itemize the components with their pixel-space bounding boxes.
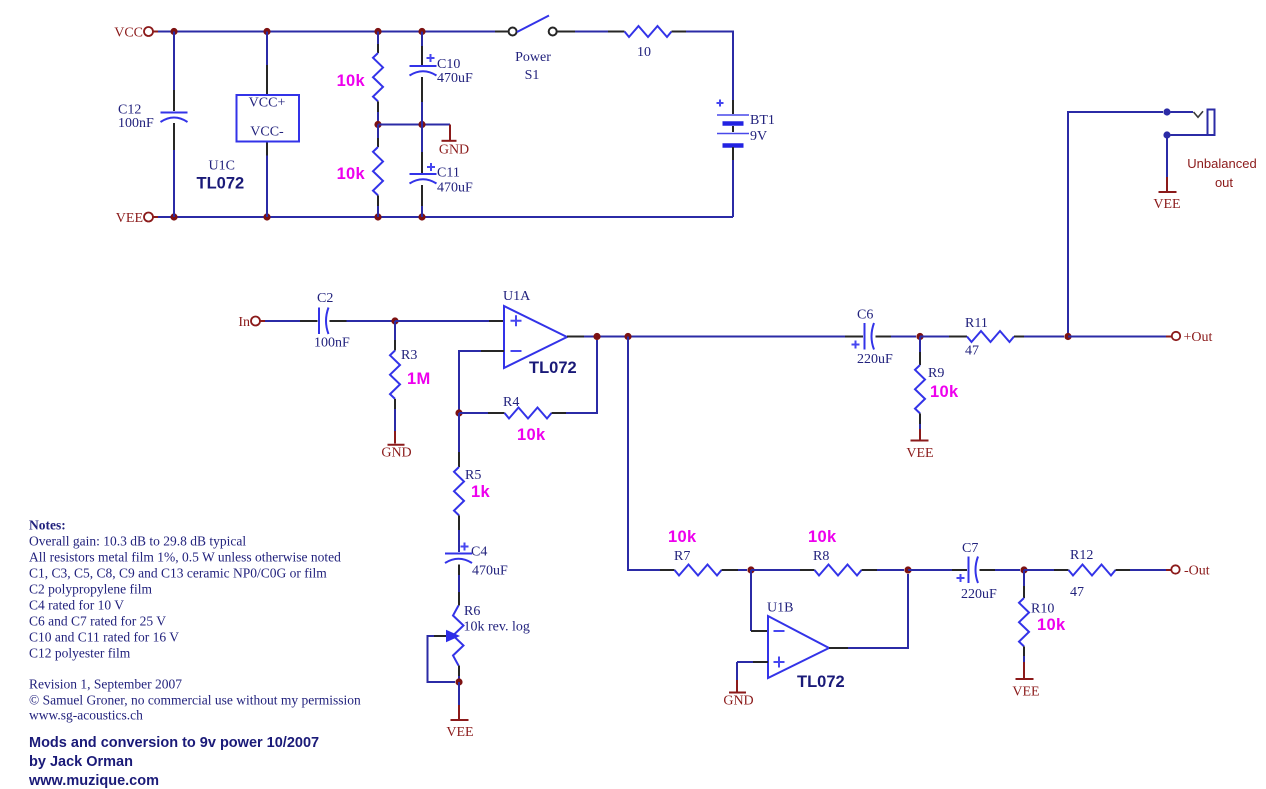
wire U1B- pin [751,630,768,632]
svg-text:470uF: 470uF [437,71,473,86]
svg-text:GND: GND [723,694,753,709]
potentiometer R6 [428,592,530,682]
wire +out column up [1068,112,1163,337]
node VEE/U1C [263,213,270,220]
svg-text:47: 47 [965,344,979,359]
port VCC [114,26,158,41]
svg-text:VEE: VEE [1153,197,1180,212]
node R8/C7/U1B out [904,566,911,573]
svg-text:out: out [1215,175,1233,190]
wire R to battery [672,32,734,115]
wire switch to R [575,31,625,33]
wire branch down to lower row [628,337,660,571]
svg-text:10k: 10k [517,426,546,444]
svg-text:R7: R7 [674,549,690,564]
capacitor C6 [845,308,916,368]
wire U1B+ pin [737,662,768,680]
svg-text:BT1: BT1 [750,113,775,128]
svg-text:C7: C7 [962,541,978,556]
label Unbalanced out [1187,156,1256,190]
svg-text:10k: 10k [337,72,366,90]
svg-text:VEE: VEE [446,725,473,740]
svg-text:TL072: TL072 [529,359,577,377]
node feedback/R4/R5 [455,409,462,416]
svg-text:Power: Power [515,50,551,65]
node C7/R10/R12 [1020,566,1027,573]
svg-text:TL072: TL072 [797,673,845,691]
node R6 bottom [455,678,462,685]
resistor R12 [1024,548,1166,600]
svg-text:220uF: 220uF [857,352,893,367]
svg-text:9V: 9V [750,129,767,144]
svg-text:R8: R8 [813,549,829,564]
wire feedback [459,351,481,413]
svg-text:+Out: +Out [1184,330,1213,345]
jack J1 tip contact [1194,111,1204,117]
svg-text:10k: 10k [930,383,959,401]
node C6/R9/R11 [916,333,923,340]
capacitor C11 [410,125,474,218]
capacitor C7 [908,541,1020,602]
svg-text:10k: 10k [337,165,366,183]
power VEE (R9) [906,429,933,461]
op-amp U1C power box [197,95,300,193]
svg-text:Unbalanced: Unbalanced [1187,156,1256,171]
svg-text:10k: 10k [668,528,697,546]
power VEE (R10) [1012,662,1039,700]
svg-text:In: In [238,315,250,330]
wire R6 to VEE [458,682,460,705]
wire to +Out [1068,336,1166,338]
resistor 10k (lower divider) [337,125,383,218]
svg-text:VCC+: VCC+ [249,96,286,111]
svg-text:C10: C10 [437,57,460,72]
node output/feedback [593,333,600,340]
wire sleeve to VEE [1166,138,1168,177]
wire divider mid to C10/C11 [378,124,450,126]
node VCC/C12 [170,28,177,35]
capacitor C2 [314,291,350,351]
svg-text:U1B: U1B [767,601,793,616]
op-amp U1B [767,601,845,692]
svg-text:470uF: 470uF [437,181,473,196]
wire U1A- pin [481,350,504,352]
svg-text:www.muzique.com: www.muzique.com [28,773,159,789]
svg-text:Notes:: Notes: [29,518,66,533]
jack J1 sleeve [1208,110,1215,136]
wire battery to VEE rail [732,147,734,217]
port In [238,315,265,330]
svg-text:100nF: 100nF [118,116,154,131]
title text [28,735,319,789]
notes text [29,518,361,723]
port -Out [1166,564,1210,579]
capacitor C12 [118,103,188,132]
svg-text:C2: C2 [317,291,333,306]
wire tip [1171,111,1194,113]
wire U1C branch [266,32,268,218]
node input [391,317,398,324]
wire node to U1A+ [395,320,504,322]
node C10/C11 mid [418,121,425,128]
resistor R9 [915,337,959,430]
svg-text:-Out: -Out [1184,564,1210,579]
resistor R11 [920,316,1064,359]
svg-text:10k: 10k [808,528,837,546]
svg-text:All resistors metal film 1%, 0: All resistors metal film 1%, 0.5 W unles… [29,550,341,565]
power VEE (jack) [1153,177,1180,212]
svg-text:C12 polyester film: C12 polyester film [29,646,131,661]
svg-text:R12: R12 [1070,548,1093,563]
svg-text:10k rev. log: 10k rev. log [464,620,530,635]
svg-text:U1C: U1C [209,159,235,174]
svg-text:C11: C11 [437,166,460,181]
svg-text:R4: R4 [503,395,519,410]
resistor 10k (upper divider) [337,32,383,125]
resistor R7 [660,528,747,576]
svg-text:1k: 1k [471,483,490,501]
svg-text:R5: R5 [465,468,481,483]
port VEE (left) [116,211,158,226]
svg-text:GND: GND [439,143,469,158]
wire C2 to node [330,320,396,322]
wire U1A output [567,336,845,338]
svg-text:R6: R6 [464,604,480,619]
svg-text:R11: R11 [965,316,988,331]
ground GND (supply mid) [439,125,469,158]
svg-text:TL072: TL072 [197,175,245,193]
resistor R8 [751,528,904,576]
port +Out [1166,330,1213,345]
node VEE/divider [374,213,381,220]
capacitor C10 [410,32,474,125]
svg-text:47: 47 [1070,585,1084,600]
node VEE/C11 [418,213,425,220]
node VCC/C10 [418,28,425,35]
svg-text:VEE: VEE [1012,685,1039,700]
capacitor C4 [445,543,508,593]
wire C12 branch [173,32,175,218]
wire U1B output [829,574,908,648]
switch S1 [495,16,575,84]
svg-text:10: 10 [637,45,651,60]
node VEE/C12 [170,213,177,220]
svg-text:R9: R9 [928,366,944,381]
svg-text:C6 and C7 rated for 25 V: C6 and C7 rated for 25 V [29,614,166,629]
resistor R5 [454,413,490,552]
node VCC/U1C [263,28,270,35]
svg-text:www.sg-acoustics.ch: www.sg-acoustics.ch [29,708,143,723]
node R11/+Out/jack [1064,333,1071,340]
svg-text:100nF: 100nF [314,336,350,351]
resistor R4 [459,340,597,444]
resistor R3 [390,321,431,431]
svg-text:470uF: 470uF [472,564,508,579]
svg-text:Revision 1, September 2007: Revision 1, September 2007 [29,677,182,692]
svg-text:© Samuel Groner, no commercial: © Samuel Groner, no commercial use witho… [29,693,361,708]
svg-text:Overall gain: 10.3 dB to 29.8: Overall gain: 10.3 dB to 29.8 dB typical [29,534,246,549]
svg-text:220uF: 220uF [961,587,997,602]
svg-text:Mods and conversion to 9v powe: Mods and conversion to 9v power 10/2007 [29,735,319,751]
wire VEE rail [158,216,733,218]
svg-text:C10 and C11 rated for 16 V: C10 and C11 rated for 16 V [29,630,179,645]
svg-text:C2 polypropylene film: C2 polypropylene film [29,582,152,597]
svg-text:by Jack Orman: by Jack Orman [29,754,133,770]
svg-text:VCC: VCC [114,26,143,41]
svg-text:S1: S1 [525,68,540,83]
svg-text:VEE: VEE [116,211,143,226]
node jack sleeve [1163,131,1170,138]
node output/lower branch [624,333,631,340]
wire VCC rail [158,31,495,33]
svg-text:R3: R3 [401,348,417,363]
svg-text:VCC-: VCC- [250,125,284,140]
svg-text:R10: R10 [1031,602,1054,617]
wire R7 node to U1B- [750,570,752,631]
svg-text:GND: GND [381,446,411,461]
ground GND (U1B+) [723,680,753,709]
op-amp U1A [503,289,577,377]
node divider mid [374,121,381,128]
node VCC/divider [374,28,381,35]
wire sleeve [1171,134,1215,136]
svg-text:C6: C6 [857,308,873,323]
ground GND (R3) [381,431,411,461]
resistor 10 [625,26,672,60]
battery BT1 [717,100,775,146]
svg-text:C4 rated for 10 V: C4 rated for 10 V [29,598,124,613]
svg-text:U1A: U1A [503,289,531,304]
svg-text:1M: 1M [407,370,431,388]
power VEE (R6) [446,705,473,740]
svg-text:C1, C3, C5, C8, C9 and C13 cer: C1, C3, C5, C8, C9 and C13 ceramic NP0/C… [29,566,327,581]
resistor R10 [1019,570,1066,662]
svg-text:VEE: VEE [906,446,933,461]
node jack tip [1163,108,1170,115]
node R7/R8/U1B- [747,566,754,573]
svg-text:10k: 10k [1037,616,1066,634]
svg-text:C4: C4 [471,545,487,560]
wire In to C2 [265,320,318,322]
